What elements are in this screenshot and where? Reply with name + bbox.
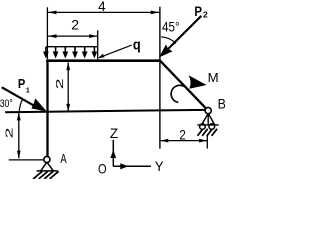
support B triangle [202,113,215,125]
dimension 2 bottom right arrow [199,139,207,143]
wire extension line left (x=47.4 above beam) [46,7,48,59]
force P2 line [167,16,202,51]
svg-text:1: 1 [26,87,30,94]
svg-text:2: 2 [55,78,66,89]
svg-text:45°: 45° [162,19,180,35]
svg-text:2: 2 [179,126,186,142]
svg-text:M: M [208,71,219,85]
pin support A circle [44,156,50,162]
svg-text:2: 2 [203,10,208,20]
support A triangle [41,162,54,171]
svg-text:q: q [133,37,141,54]
column left member [46,59,48,156]
dimension 4 left arrow [48,11,56,15]
distributed load arrows [46,47,95,54]
svg-text:O: O [98,161,107,177]
dimension 2 middle vertical line [67,62,69,110]
support A hatching [33,171,58,179]
dimension 2 bottom right line [160,140,207,142]
dimension 2 left vertical line [18,112,20,158]
svg-text:Y: Y [155,158,164,174]
wire extension line load right (x=97.7) [97,30,99,59]
support B hatching [198,129,218,136]
beam top member [46,59,160,62]
svg-text:P: P [18,77,25,91]
dimension 4 line [48,11,159,13]
wire extension B bottom [206,135,208,149]
wire extension A bottom [9,159,44,161]
dimension 2 middle down arrow [66,104,70,112]
axis Z line [112,140,114,167]
dimension 2 middle up arrow [66,62,70,70]
q leader arrow [98,54,105,59]
inclined member to B [160,60,206,108]
angle 30 arc [19,99,23,112]
svg-text:2: 2 [71,17,79,33]
svg-text:A: A [60,152,67,166]
support B ground line [197,124,218,126]
moment M arc [171,85,184,102]
force P1 arrowhead [31,98,47,111]
svg-text:Z: Z [110,125,119,141]
angle 45 arc [161,37,176,44]
dimension 2 left down arrow [17,151,21,159]
moment M arrowhead [189,75,207,89]
force P1 line [2,87,37,107]
pin support B circle [205,108,211,114]
svg-text:P: P [194,4,202,19]
svg-text:2: 2 [4,128,15,139]
axis Y line [113,165,151,167]
distributed load q top bar [46,46,98,48]
roller support B rollers [200,124,206,130]
axis Z arrowhead [110,150,116,158]
dimension 2 top right arrow [89,34,97,38]
q leader line [100,45,132,57]
wire extension line right (x=159.9) [159,7,161,149]
dimension 2 top left arrow [48,34,56,38]
force P2 arrowhead [159,44,173,57]
dimension 2 left up arrow [17,113,21,121]
dimension 2 top line [48,35,98,37]
svg-text:30°: 30° [0,98,13,110]
middle horizontal member [5,110,205,112]
svg-text:B: B [218,96,225,111]
dimension 2 bottom left arrow [160,139,168,143]
svg-text:4: 4 [98,0,106,14]
dimension 4 right arrow [151,11,159,15]
axis Y arrowhead [120,163,128,169]
support A base line [37,170,58,172]
